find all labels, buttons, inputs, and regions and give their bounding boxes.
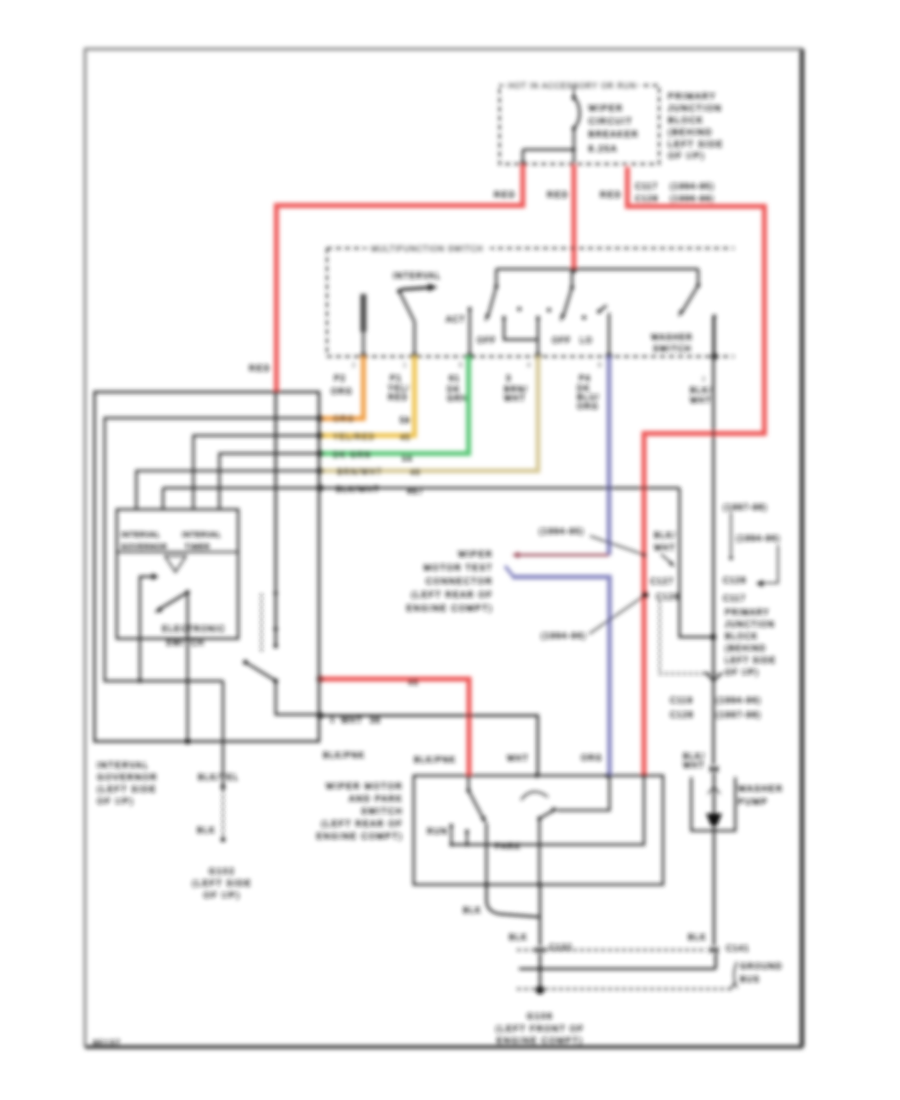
svg-text:BLU/: BLU/ (577, 393, 600, 402)
svg-text:PUMP: PUMP (738, 797, 768, 807)
svg-text:PRIMARY: PRIMARY (725, 608, 770, 617)
svg-text:61: 61 (449, 374, 460, 383)
svg-text:C128: C128 (635, 195, 659, 204)
svg-text:C128: C128 (670, 711, 694, 720)
svg-text:BRN/WHT: BRN/WHT (337, 468, 383, 477)
svg-text:SWITCH: SWITCH (166, 639, 205, 648)
svg-text:YEL/: YEL/ (388, 384, 410, 393)
svg-text:C119: C119 (670, 696, 693, 705)
svg-text:RED: RED (249, 363, 271, 373)
svg-text:C141: C141 (726, 944, 750, 953)
svg-text:SWITCH: SWITCH (361, 806, 403, 816)
svg-text:G102: G102 (209, 866, 235, 876)
svg-text:OF I/P): OF I/P) (203, 890, 240, 900)
svg-text:WHT: WHT (341, 716, 363, 725)
svg-text:ENGINE COMPT): ENGINE COMPT) (316, 831, 403, 841)
svg-text:BLK/PNK: BLK/PNK (414, 756, 456, 765)
svg-text:INTERVAL: INTERVAL (393, 272, 441, 281)
svg-text:95137: 95137 (93, 1039, 121, 1048)
svg-text:BLK: BLK (463, 906, 482, 915)
svg-text:SWITCH: SWITCH (653, 345, 692, 354)
svg-text:OF I/P): OF I/P) (725, 668, 759, 677)
svg-text:36: 36 (370, 716, 381, 725)
svg-text:GROUND: GROUND (740, 962, 783, 971)
svg-text:OFF: OFF (552, 336, 571, 345)
svg-text:PRIMARY: PRIMARY (668, 91, 716, 101)
svg-text:C128: C128 (723, 576, 747, 585)
svg-text:(LEFT FRONT OF: (LEFT FRONT OF (496, 1024, 585, 1034)
svg-text:59: 59 (400, 416, 411, 425)
svg-text:BLOCK: BLOCK (725, 632, 758, 641)
svg-text:INTERVAL: INTERVAL (97, 760, 149, 770)
svg-text:C117: C117 (723, 594, 746, 603)
svg-text:(1994-96): (1994-96) (716, 696, 762, 705)
svg-text:(BEHIND: (BEHIND (725, 644, 766, 653)
svg-text:RED: RED (388, 393, 409, 402)
svg-text:OF I/P): OF I/P) (668, 151, 705, 161)
svg-text:AND PARK: AND PARK (349, 794, 403, 804)
svg-text:GOVERNOR: GOVERNOR (121, 544, 167, 551)
svg-text:ELECTRONIC: ELECTRONIC (162, 625, 226, 634)
svg-text:C127: C127 (650, 577, 674, 586)
svg-text:RUN: RUN (427, 827, 448, 836)
svg-text:BLK/YEL: BLK/YEL (198, 773, 239, 782)
svg-text:BLK/: BLK/ (654, 531, 676, 540)
svg-text:BLK: BLK (509, 933, 528, 942)
svg-text:ORG: ORG (331, 387, 353, 396)
svg-text:BLK/PNK: BLK/PNK (323, 751, 365, 760)
svg-text:TIMER: TIMER (185, 544, 210, 551)
svg-text:BLK/WHT: BLK/WHT (336, 485, 380, 494)
svg-text:DK GRN: DK GRN (333, 451, 371, 460)
svg-text:JUNCTION: JUNCTION (725, 620, 775, 629)
svg-text:BLK: BLK (688, 933, 707, 942)
svg-text:RED: RED (600, 190, 622, 200)
svg-text:(1994-95): (1994-95) (670, 182, 715, 191)
svg-text:WASHER: WASHER (651, 333, 693, 342)
svg-text:ACT: ACT (446, 315, 465, 324)
svg-text:C128: C128 (656, 593, 680, 602)
svg-text:YEL/RED: YEL/RED (333, 433, 376, 442)
svg-text:CIRCUIT: CIRCUIT (589, 116, 633, 126)
svg-text:DK: DK (447, 385, 461, 394)
svg-text:P1: P1 (390, 374, 402, 383)
svg-text:RED: RED (547, 190, 569, 200)
svg-text:ENGINE COMPT): ENGINE COMPT) (497, 1036, 584, 1046)
svg-text:INTERVAL: INTERVAL (182, 532, 221, 539)
svg-text:46: 46 (410, 468, 421, 477)
svg-text:BUS: BUS (740, 975, 760, 984)
svg-text:(LEFT REAR OF: (LEFT REAR OF (321, 819, 403, 829)
svg-text:46: 46 (408, 678, 419, 687)
svg-text:BLK/: BLK/ (683, 752, 705, 761)
svg-text:DK: DK (577, 384, 591, 393)
svg-text:56: 56 (402, 454, 413, 463)
svg-text:RED: RED (494, 190, 516, 200)
svg-text:BLK/: BLK/ (690, 386, 712, 395)
svg-text:OFF: OFF (477, 336, 496, 345)
svg-text:C117: C117 (635, 182, 658, 191)
svg-text:(BEHIND: (BEHIND (668, 127, 713, 137)
svg-text:P4: P4 (579, 374, 591, 383)
svg-text:BREAKER: BREAKER (589, 129, 639, 139)
svg-text:(1996-99): (1996-99) (670, 195, 715, 204)
svg-text:ENGINE COMPT): ENGINE COMPT) (406, 603, 493, 613)
svg-text:WHT: WHT (504, 394, 526, 403)
svg-text:1: 1 (330, 715, 336, 724)
svg-text:WHT: WHT (654, 544, 676, 553)
svg-text:(1997-98): (1997-98) (716, 711, 762, 720)
svg-text:HOT IN ACCESSORY OR RUN: HOT IN ACCESSORY OR RUN (508, 82, 637, 91)
svg-text:8.25A: 8.25A (589, 144, 618, 154)
svg-text:BRN/: BRN/ (504, 385, 528, 394)
svg-text:LEFT SIDE: LEFT SIDE (668, 139, 723, 149)
svg-text:(1997-98): (1997-98) (723, 503, 768, 512)
svg-text:BLOCK: BLOCK (668, 115, 704, 125)
svg-text:LO: LO (580, 336, 593, 345)
svg-text:WIPER: WIPER (589, 103, 624, 113)
svg-text:CONNECTOR: CONNECTOR (426, 576, 493, 586)
svg-text:WIPER MOTOR: WIPER MOTOR (326, 781, 403, 791)
svg-text:WHT: WHT (507, 754, 529, 763)
svg-text:WIPER: WIPER (458, 549, 493, 559)
svg-text:JUNCTION: JUNCTION (668, 103, 722, 113)
svg-text:MULTIFUNCTION SWITCH: MULTIFUNCTION SWITCH (371, 245, 484, 254)
svg-text:GOVERNOR: GOVERNOR (97, 772, 158, 782)
svg-text:3: 3 (506, 374, 512, 383)
svg-text:MOTOR TEST: MOTOR TEST (424, 563, 493, 573)
svg-text:PARK: PARK (495, 842, 521, 851)
svg-text:(1994-96): (1994-96) (736, 534, 781, 543)
svg-text:(LEFT REAR OF: (LEFT REAR OF (411, 590, 493, 600)
svg-text:(LEFT SIDE: (LEFT SIDE (192, 878, 252, 888)
svg-text:ORG: ORG (581, 754, 603, 763)
svg-text:(LEFT SIDE: (LEFT SIDE (97, 784, 157, 794)
svg-text:WHT: WHT (690, 396, 712, 405)
svg-text:WHT: WHT (683, 761, 705, 770)
svg-text:(1994-95): (1994-95) (539, 527, 585, 536)
svg-text:GRN: GRN (447, 394, 468, 403)
svg-text:INTERVAL: INTERVAL (121, 532, 160, 539)
svg-text:ORG: ORG (333, 415, 355, 424)
svg-text:LEFT SIDE: LEFT SIDE (725, 656, 776, 665)
svg-text:OF I/P): OF I/P) (97, 796, 134, 806)
svg-text:G106: G106 (527, 1011, 553, 1021)
svg-text:(1994-96): (1994-96) (541, 632, 587, 641)
svg-text:ORG: ORG (577, 402, 599, 411)
svg-text:BLK: BLK (197, 826, 216, 835)
svg-text:45: 45 (400, 433, 411, 442)
svg-text:467: 467 (407, 487, 424, 496)
svg-text:WASHER: WASHER (738, 784, 783, 794)
svg-text:P2: P2 (334, 374, 346, 383)
